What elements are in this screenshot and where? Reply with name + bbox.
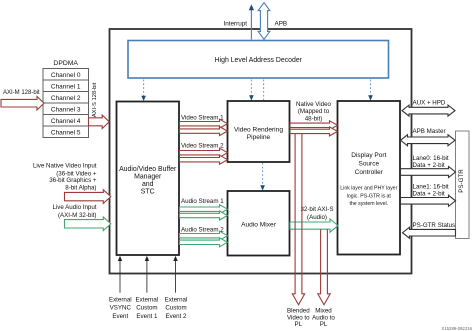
arrow: audio stream 2a (180, 231, 228, 240)
svg-text:Audio/Video Buffer: Audio/Video Buffer (119, 166, 177, 173)
svg-text:Event 1: Event 1 (136, 313, 158, 320)
svg-text:PL: PL (320, 321, 328, 328)
arrow: Blended Video to PL (292, 133, 304, 304)
arrow: audio stream 1b (180, 211, 228, 220)
svg-text:Video Stream 1: Video Stream 1 (181, 114, 224, 121)
svg-text:Video Rendering: Video Rendering (234, 126, 283, 133)
arrow: APB bidirectional (258, 3, 270, 40)
svg-text:logic. PS-GTR is at: logic. PS-GTR is at (347, 193, 392, 199)
arrow: audio stream 2b (180, 238, 228, 247)
svg-text:the system level.: the system level. (349, 201, 388, 207)
arrow: native video a (290, 121, 338, 130)
svg-text:APB Master: APB Master (413, 128, 446, 135)
svg-text:32-bit AXI-S: 32-bit AXI-S (300, 206, 333, 213)
dashed arrow: decoder to Audio Mixer (lower segment) (262, 163, 264, 186)
svg-text:APB: APB (275, 21, 288, 28)
block: Audio/Video Buffer Manager and STC (117, 102, 180, 256)
svg-text:AXI-M 128-bit: AXI-M 128-bit (3, 90, 40, 96)
svg-text:Audio Mixer: Audio Mixer (241, 221, 277, 228)
svg-text:Video Stream 2: Video Stream 2 (181, 143, 224, 150)
svg-text:External: External (136, 296, 159, 303)
svg-text:Display Port: Display Port (351, 152, 386, 159)
svg-text:Channel 2: Channel 2 (51, 95, 81, 102)
arrow: audio stream 1a (180, 205, 228, 214)
svg-text:Pipeline: Pipeline (247, 134, 271, 141)
svg-text:48-bit): 48-bit) (305, 115, 323, 122)
svg-text:Native Video: Native Video (296, 101, 332, 108)
dashed arrow: decoder to Audio/Video Buffer Manager (143, 80, 145, 97)
arrow: 32-bit AXI-S audio (290, 219, 338, 232)
svg-text:Live Audio Input: Live Audio Input (52, 204, 96, 211)
dashed arrow: decoder to Video Rendering Pipeline (250, 80, 252, 96)
svg-text:Channel 1: Channel 1 (51, 83, 81, 90)
svg-text:Channel 4: Channel 4 (51, 118, 81, 125)
dashed arrow: decoder to Audio Mixer (upper segment) (263, 80, 265, 101)
svg-text:Channel 0: Channel 0 (51, 72, 81, 79)
svg-text:STC: STC (141, 189, 155, 196)
arrow: External Custom Event 1 (146, 260, 148, 293)
svg-text:External: External (109, 296, 132, 303)
arrow: video stream 2b (180, 155, 228, 164)
svg-text:Audio Stream 1: Audio Stream 1 (181, 198, 224, 205)
svg-text:Lane0: 16-bit: Lane0: 16-bit (413, 155, 449, 162)
arrow: External Custom Event 2 (175, 260, 177, 293)
block: Display Port Source Controller (338, 101, 401, 255)
svg-text:High Level Address Decoder: High Level Address Decoder (215, 57, 303, 64)
block: Audio Mixer (228, 191, 290, 256)
block: PS-GTR (456, 131, 470, 239)
svg-text:X15289-092216: X15289-092216 (441, 326, 472, 331)
arrow: DPDMA channel 4 to subsystem (89, 115, 110, 129)
svg-text:Source: Source (358, 161, 379, 168)
svg-text:(Mapped to: (Mapped to (298, 108, 330, 115)
outer box: DisplayPort subsystem boundary (110, 29, 412, 274)
block: Video Rendering Pipeline (228, 101, 290, 162)
block: High Level Address Decoder (128, 41, 389, 79)
svg-text:Link layer and PHY layer: Link layer and PHY layer (340, 185, 397, 191)
arrow: External VSYNC Event (119, 260, 121, 293)
arrow: video stream 1a (180, 119, 228, 128)
svg-text:(AXI-M 32-bit): (AXI-M 32-bit) (58, 212, 97, 219)
arrow: video stream 2a (180, 148, 228, 157)
svg-text:PS-GTR Status: PS-GTR Status (413, 222, 456, 229)
svg-text:Controller: Controller (355, 169, 384, 176)
svg-text:36-bit Graphics +: 36-bit Graphics + (49, 177, 97, 184)
svg-text:Manager: Manager (134, 173, 162, 180)
svg-text:PL: PL (295, 321, 303, 328)
svg-text:8-bit Alpha): 8-bit Alpha) (65, 185, 96, 192)
svg-text:AUX + HPD: AUX + HPD (413, 100, 446, 107)
svg-text:PS-GTR: PS-GTR (458, 169, 465, 193)
svg-text:(Audio): (Audio) (307, 214, 327, 221)
arrow: video stream 1b (180, 127, 228, 136)
arrow: native video b (290, 127, 338, 136)
svg-text:VSYNC: VSYNC (110, 305, 132, 312)
svg-text:Interrupt: Interrupt (224, 21, 248, 28)
svg-text:Event 2: Event 2 (166, 313, 188, 320)
arrow: Mixed Audio to PL (318, 229, 330, 305)
svg-text:Custom: Custom (165, 305, 186, 312)
svg-text:Audio Stream 2: Audio Stream 2 (181, 227, 224, 234)
svg-text:Data + 2-bit: Data + 2-bit (413, 190, 445, 197)
svg-text:Custom: Custom (136, 305, 157, 312)
svg-text:Data + 2-bit: Data + 2-bit (413, 162, 445, 169)
svg-text:AXI-S 128-bit: AXI-S 128-bit (92, 82, 98, 117)
svg-text:Live Native Video Input: Live Native Video Input (33, 163, 97, 170)
svg-text:and: and (142, 181, 154, 188)
svg-text:DPDMA: DPDMA (53, 60, 78, 67)
svg-text:Channel 5: Channel 5 (51, 129, 81, 136)
svg-text:External: External (165, 296, 188, 303)
svg-text:Channel 3: Channel 3 (51, 106, 81, 113)
svg-text:Event: Event (112, 313, 128, 320)
dashed arrow: decoder to Display Port Source Controller (370, 80, 372, 96)
